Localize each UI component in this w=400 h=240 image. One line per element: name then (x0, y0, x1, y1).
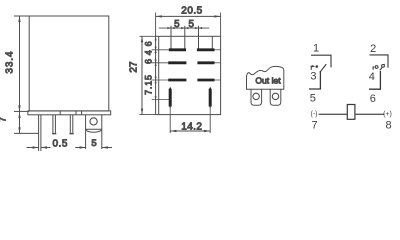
relay body (side view) (29, 16, 109, 111)
dimension 5,5 (pin pitch) (159, 19, 210, 30)
svg-text:4: 4 (144, 50, 154, 55)
coil pin right (bottom view) (209, 87, 212, 115)
svg-text:5: 5 (310, 92, 316, 104)
svg-text:4: 4 (369, 71, 375, 83)
relay body (bottom view) (156, 36, 221, 114)
svg-text:20.5: 20.5 (181, 6, 202, 17)
svg-text:6: 6 (144, 41, 154, 46)
contact dot (316, 65, 319, 68)
outlet right tab (270, 89, 281, 105)
dimension 14.2 (170, 115, 210, 133)
node 8 label (385, 120, 391, 132)
flat quick-connect pin (side view) (39, 115, 41, 151)
dimension 5 (tab width) (75, 138, 112, 149)
outlet body (247, 66, 284, 89)
svg-text:5: 5 (174, 19, 180, 30)
svg-text:8: 8 (385, 120, 391, 132)
svg-text:6: 6 (144, 59, 154, 64)
mounting tab with hole (side view) (86, 115, 102, 149)
coil polarity (+) (383, 111, 392, 118)
dimension 20.5 (156, 6, 221, 37)
terminal tab guide lines (bottom view) (171, 26, 212, 49)
pin 2 wire (370, 55, 389, 68)
svg-text:14.2: 14.2 (181, 121, 202, 132)
pin 3 lead with wiper arrow (311, 65, 315, 70)
node 2 label (370, 43, 376, 55)
movable arm pole 1 (320, 64, 326, 72)
coil pin left (bottom view) (152, 87, 172, 115)
pin 4 lead with contact circle (373, 66, 378, 70)
svg-text:7: 7 (0, 117, 8, 122)
svg-text:6: 6 (370, 93, 376, 105)
node 7 label (312, 119, 318, 131)
svg-text:Out let: Out let (255, 76, 281, 86)
pin 1 wire (311, 55, 331, 67)
dimension 0.5 (27, 138, 68, 149)
node 3 label (310, 71, 316, 83)
coil wire right (355, 113, 385, 115)
terminal row 3 (bottom view) (152, 79, 221, 81)
svg-text:5: 5 (91, 138, 96, 149)
node 6 label (370, 93, 376, 105)
svg-text:5: 5 (188, 19, 194, 30)
dimension 7 (0, 111, 39, 133)
coil K1 (347, 105, 355, 120)
node 4 label (369, 71, 375, 83)
node 1 label (313, 42, 319, 54)
pin 6 wire (369, 71, 380, 89)
coil polarity (-) (311, 111, 318, 118)
coil wire left (319, 113, 348, 115)
relay base flange (side view) (28, 111, 111, 115)
svg-text:3: 3 (310, 71, 316, 83)
dimension 27 (128, 36, 155, 114)
svg-text:1: 1 (313, 42, 319, 54)
pin 2 (side view) (52, 115, 56, 134)
movable arm pole 2 (380, 64, 385, 70)
svg-text:2: 2 (370, 43, 376, 55)
svg-text:7: 7 (312, 119, 318, 131)
svg-text:7.15: 7.15 (144, 74, 154, 95)
node 5 label (310, 92, 316, 104)
outlet left tab (251, 89, 262, 105)
pin 3 (side view) (69, 115, 73, 134)
dimension 33.4 (5, 16, 30, 111)
svg-text:27: 27 (128, 61, 139, 73)
svg-text:0.5: 0.5 (52, 138, 67, 149)
svg-text:33.4: 33.4 (5, 51, 16, 74)
terminal row 2 (bottom view) (152, 62, 221, 64)
svg-text:(-): (-) (311, 111, 318, 118)
chain dimensions 7.15 6 4 6 (ticks on body edge) (144, 37, 157, 100)
svg-text:(+): (+) (383, 111, 392, 118)
terminal row 1 (bottom view) (152, 49, 221, 51)
pin 5 wire (309, 71, 320, 89)
